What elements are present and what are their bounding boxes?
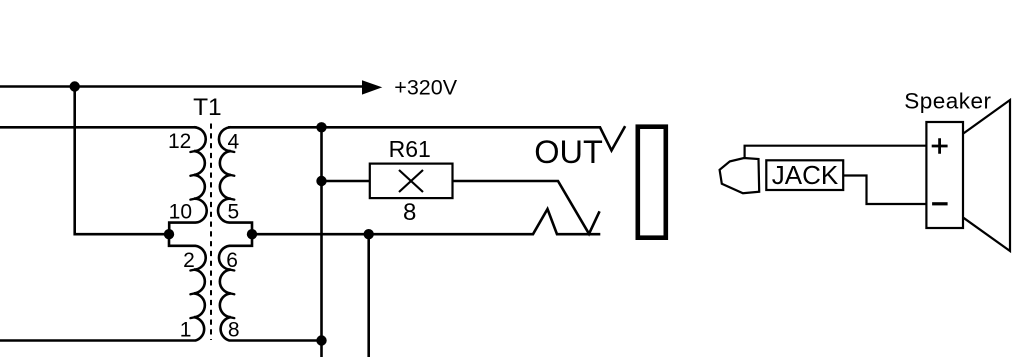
svg-text:R61: R61	[389, 136, 431, 162]
svg-text:8: 8	[403, 199, 416, 226]
svg-text:5: 5	[228, 201, 240, 224]
svg-text:JACK: JACK	[772, 160, 839, 190]
svg-text:1: 1	[180, 319, 192, 342]
svg-text:+320V: +320V	[394, 76, 457, 100]
svg-text:4: 4	[228, 130, 240, 153]
svg-text:2: 2	[183, 249, 195, 272]
svg-text:8: 8	[228, 319, 240, 342]
svg-text:6: 6	[226, 249, 238, 272]
svg-text:10: 10	[169, 201, 192, 224]
svg-text:Speaker: Speaker	[904, 89, 991, 114]
svg-text:12: 12	[168, 130, 191, 153]
svg-text:T1: T1	[193, 94, 222, 121]
svg-text:OUT: OUT	[534, 134, 603, 170]
